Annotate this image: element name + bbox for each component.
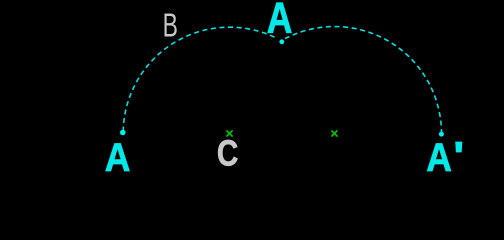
svg-text:A: A: [426, 136, 452, 180]
svg-text:B: B: [163, 7, 178, 44]
svg-text:A: A: [267, 0, 293, 42]
svg-text:': ': [453, 135, 464, 179]
svg-text:A: A: [105, 136, 131, 180]
svg-text:C: C: [217, 134, 238, 174]
